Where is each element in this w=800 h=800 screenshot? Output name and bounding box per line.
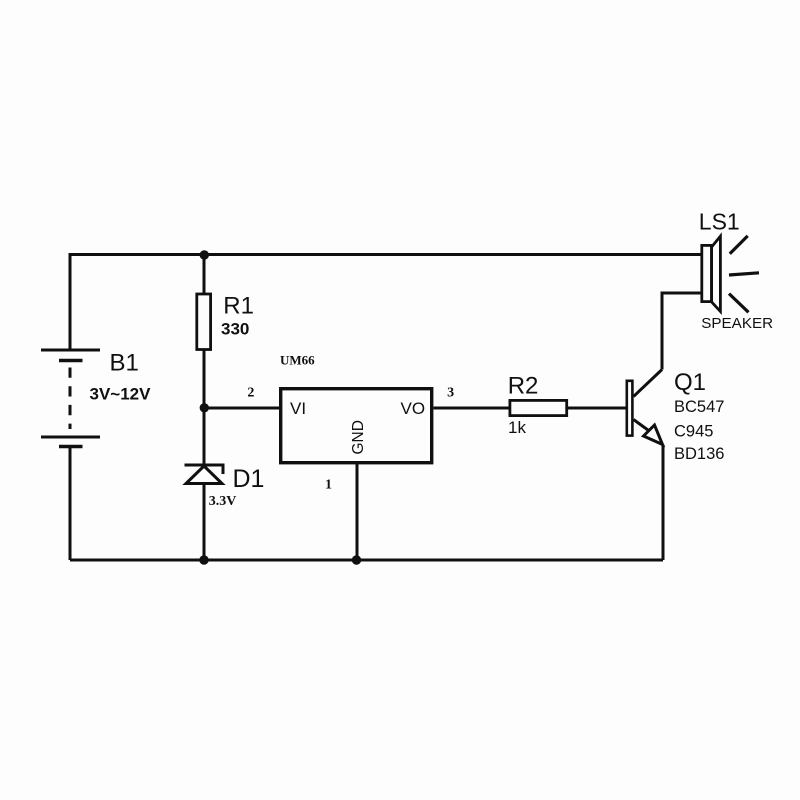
battery B1 cell1 long plate [41, 349, 100, 352]
svg-text:1: 1 [325, 478, 332, 493]
svg-text:1k: 1k [508, 418, 526, 437]
battery B1 cell1 short plate [59, 359, 83, 363]
svg-text:UM66: UM66 [280, 353, 315, 368]
svg-text:LS1: LS1 [699, 208, 740, 234]
svg-text:330: 330 [221, 320, 249, 339]
wire: node to IC pin VI [204, 407, 280, 410]
speaker LS1 cone [712, 236, 721, 311]
svg-text:BD136: BD136 [674, 445, 724, 463]
svg-text:3: 3 [447, 386, 454, 401]
svg-text:BC547: BC547 [674, 398, 724, 416]
wire: emitter down to bottom rail [662, 445, 665, 561]
svg-text:R2: R2 [508, 372, 539, 399]
battery B1 cell2 short plate [59, 445, 83, 449]
zener diode D1 triangle [186, 466, 222, 484]
wire: battery - down to bottom rail [69, 447, 72, 561]
svg-text:3V~12V: 3V~12V [90, 385, 152, 404]
svg-text:Q1: Q1 [674, 369, 706, 396]
wire: R2 to Q1 base [568, 407, 626, 410]
wire: D1 anode to bottom rail [203, 484, 206, 561]
speaker sound wave middle [729, 273, 759, 275]
zener diode D1 cathode bar [185, 465, 224, 474]
svg-text:B1: B1 [110, 350, 139, 377]
wire: top rail from battery + to speaker [70, 255, 701, 351]
svg-text:3.3V: 3.3V [209, 494, 237, 509]
wire: collector up and to speaker [662, 293, 701, 370]
wire: VO pin 3 to R2 [434, 407, 511, 410]
svg-text:GND: GND [350, 420, 367, 454]
wire: top rail to R1 top [203, 255, 206, 295]
junction node: D1 anode / bottom rail [199, 555, 208, 564]
junction node: top rail / R1 [200, 250, 209, 259]
wire: Q1 emitter diagonal [634, 420, 651, 432]
junction node: R1 / D1 / VI [200, 403, 209, 412]
speaker sound wave top [730, 236, 748, 254]
speaker LS1 driver box [702, 245, 712, 301]
wire: GND pin 1 down to bottom rail [356, 464, 359, 560]
svg-text:D1: D1 [233, 465, 265, 493]
battery B1 dashed link [69, 368, 72, 430]
IC U1 UM66 body [281, 389, 432, 463]
transistor Q1 emitter arrow [644, 425, 663, 445]
wire: bottom ground rail [70, 559, 663, 562]
svg-text:R1: R1 [223, 293, 254, 320]
svg-text:VI: VI [290, 399, 306, 418]
wire: R1 bottom to node and zener [203, 350, 206, 466]
wire: Q1 collector diagonal [634, 370, 663, 397]
svg-text:2: 2 [247, 385, 254, 400]
speaker sound wave bottom [729, 294, 749, 313]
svg-text:C945: C945 [674, 422, 713, 440]
svg-text:SPEAKER: SPEAKER [701, 315, 773, 332]
battery B1 cell2 long plate [41, 436, 100, 439]
svg-text:VO: VO [401, 399, 426, 418]
resistor R1 body [197, 294, 211, 350]
resistor R2 body [510, 400, 567, 415]
transistor Q1 base bar [627, 381, 633, 436]
junction node: GND pin / bottom rail [352, 555, 361, 564]
